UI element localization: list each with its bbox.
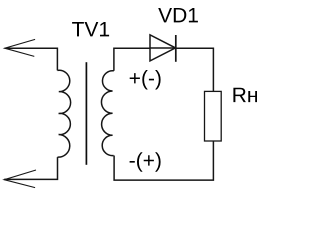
- label plus-minus: [130, 70, 161, 90]
- wire resistor bottom loop: [114, 141, 213, 180]
- transformer TV1 secondary winding: [101, 71, 113, 156]
- label minus-plus: [130, 152, 161, 172]
- diode VD1 cathode bar: [175, 35, 177, 62]
- wire top-left: [5, 48, 58, 70]
- transformer core: [85, 62, 87, 165]
- input terminal arrow top-left: [5, 39, 35, 56]
- input terminal arrow bottom-left: [4, 170, 36, 188]
- label RH: [233, 88, 257, 102]
- label VD1: [158, 8, 198, 22]
- wire bottom-left: [4, 157, 57, 179]
- resistor RH body: [205, 91, 222, 141]
- wire diode to resistor: [176, 48, 214, 91]
- wire through diode: [150, 47, 176, 49]
- diode VD1 triangle: [150, 35, 176, 61]
- wire secondary top to diode: [114, 48, 150, 71]
- label TV1: [72, 22, 109, 36]
- transformer TV1 primary winding: [57, 70, 70, 157]
